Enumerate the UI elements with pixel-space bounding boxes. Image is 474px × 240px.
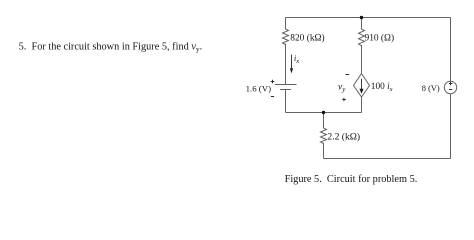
svg-text:910 (Ω): 910 (Ω) xyxy=(365,33,395,44)
svg-text:5. For the circuit shown in F: 5. For the circuit shown in Figure 5, fi… xyxy=(19,41,203,53)
svg-text:2.2 (kΩ): 2.2 (kΩ) xyxy=(327,131,360,142)
svg-text:820 (kΩ): 820 (kΩ) xyxy=(290,32,324,43)
svg-text:Figure 5. Circuit for problem: Figure 5. Circuit for problem 5. xyxy=(285,174,418,185)
svg-text:100 ix: 100 ix xyxy=(371,82,393,93)
svg-text:1.6 (V): 1.6 (V) xyxy=(246,83,271,93)
svg-text:8 (V): 8 (V) xyxy=(422,84,440,93)
